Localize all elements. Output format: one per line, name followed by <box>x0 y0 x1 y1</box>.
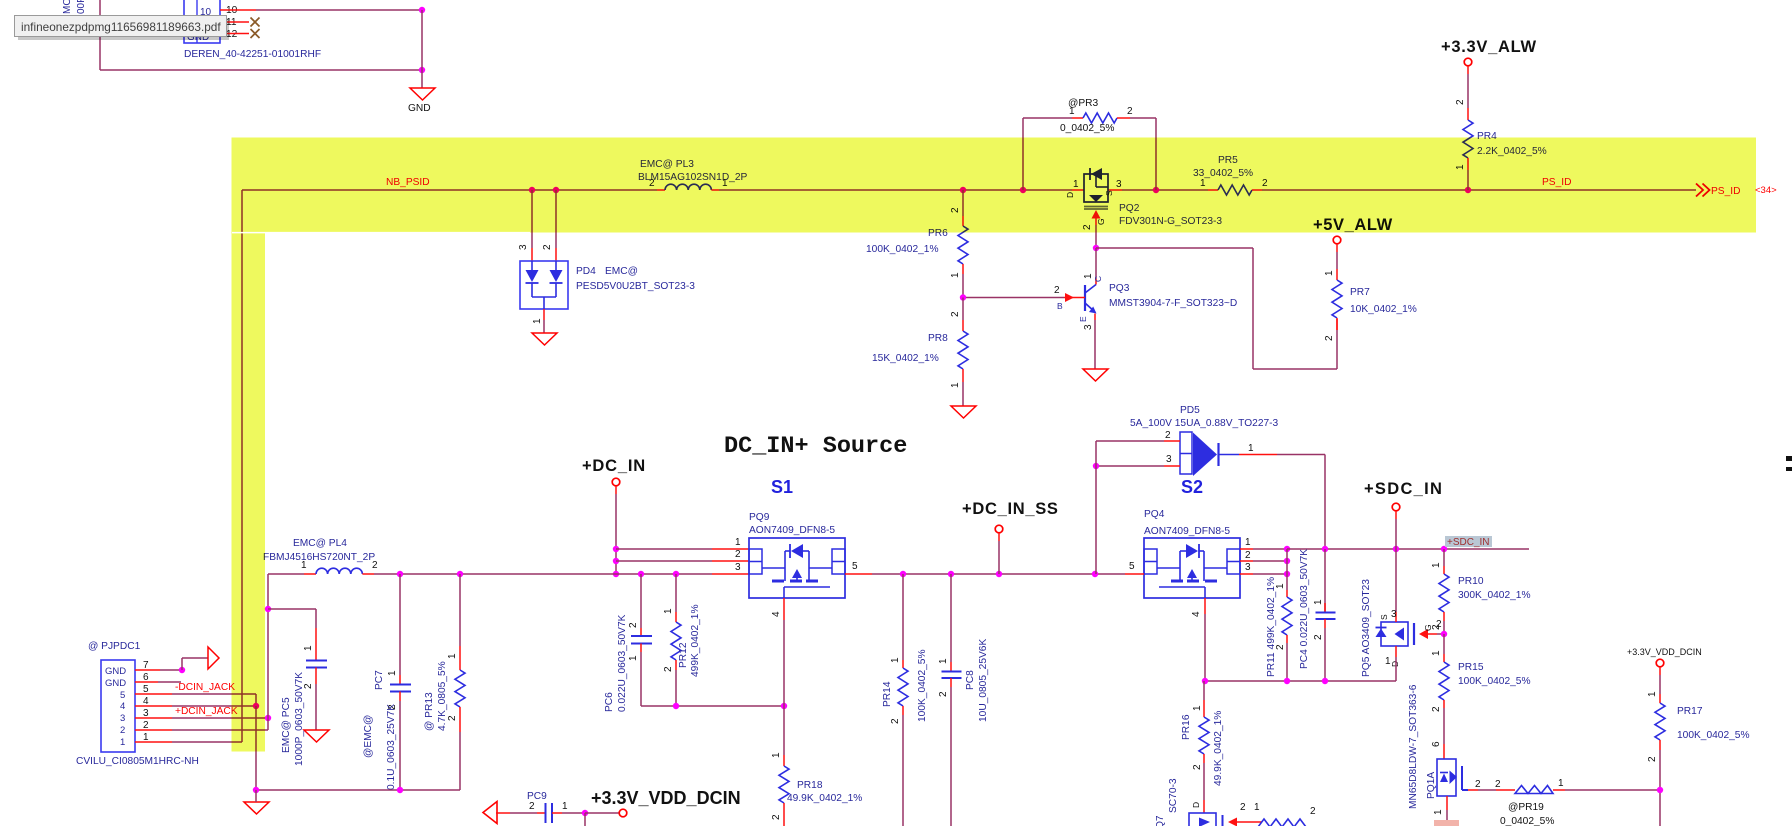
svg-text:PD4: PD4 <box>576 266 596 277</box>
svg-text:2: 2 <box>120 725 125 736</box>
pin stub 1 <box>1446 796 1448 810</box>
wire <box>962 298 964 321</box>
svg-text:PR8: PR8 <box>928 333 948 344</box>
gate arrow <box>1419 629 1428 639</box>
wire <box>783 620 785 706</box>
inductor PL3 coil <box>665 184 711 190</box>
svg-text:2: 2 <box>1240 802 1246 813</box>
wire <box>543 320 545 333</box>
net +DCIN_JACK riser <box>267 574 269 730</box>
junction <box>253 787 259 793</box>
wire <box>1395 657 1397 681</box>
transistor PQ5 internals <box>1376 629 1387 638</box>
svg-text:3: 3 <box>518 244 529 250</box>
wire <box>172 693 256 695</box>
svg-text:GND: GND <box>105 666 126 677</box>
pin stub <box>1252 189 1262 191</box>
pin stub <box>1239 454 1277 456</box>
wire <box>998 541 1000 574</box>
pin stub <box>712 548 749 550</box>
wire <box>1095 441 1097 574</box>
svg-text:3: 3 <box>1166 454 1172 465</box>
transistor Q7 internals <box>1199 818 1210 826</box>
highlighted net sliver <box>1434 820 1459 826</box>
pin stub <box>1336 319 1338 330</box>
wire <box>255 790 257 802</box>
svg-text:0_0402_5%: 0_0402_5% <box>1060 123 1114 134</box>
svg-text:2: 2 <box>447 715 458 721</box>
transistor Q7 gate bar <box>1222 815 1224 826</box>
transistor PQ9 pin cells <box>749 549 762 574</box>
pin stub <box>712 560 749 562</box>
svg-text:300K_0402_1%: 300K_0402_1% <box>1458 590 1531 601</box>
pin 1 stub <box>135 741 172 743</box>
wire <box>1022 118 1024 190</box>
svg-text:3: 3 <box>1083 324 1094 330</box>
pin stub <box>950 678 952 687</box>
svg-text:1: 1 <box>950 272 961 278</box>
wire <box>615 494 617 574</box>
wire <box>783 706 785 755</box>
svg-text:PQ9: PQ9 <box>749 512 770 523</box>
power terminal <box>619 809 627 817</box>
wire <box>374 573 712 575</box>
svg-text:2: 2 <box>950 311 961 317</box>
svg-text:S2: S2 <box>1181 477 1203 497</box>
wire <box>1203 681 1205 700</box>
svg-text:1: 1 <box>532 318 543 324</box>
svg-text:GND: GND <box>408 103 431 114</box>
svg-text:PR12: PR12 <box>678 642 689 668</box>
svg-text:1: 1 <box>1313 599 1324 605</box>
wire <box>1096 440 1164 442</box>
svg-text:EMC@: EMC@ <box>605 266 638 277</box>
resistor PR8 <box>958 331 968 369</box>
resistor PR14 <box>898 668 908 706</box>
pin stub <box>1203 754 1205 763</box>
svg-text:AON7409_DFN8-5: AON7409_DFN8-5 <box>1144 526 1230 537</box>
pin stub 3 <box>1395 612 1397 622</box>
pin stub <box>531 248 533 261</box>
svg-text:PR10: PR10 <box>1458 576 1484 587</box>
svg-text:@PR19: @PR19 <box>1508 802 1544 813</box>
pin stub <box>962 216 964 226</box>
pin stub <box>1659 740 1661 750</box>
pin stub <box>304 573 316 575</box>
resistor PR11 <box>1282 597 1292 635</box>
junction <box>1153 187 1159 193</box>
power terminal +SDC_IN <box>1392 503 1400 511</box>
wire <box>1253 548 1287 550</box>
resistor PR7 <box>1332 280 1342 318</box>
junction <box>253 703 259 709</box>
pin stub <box>998 533 1000 541</box>
svg-text:2: 2 <box>1324 335 1335 341</box>
capacitor PC7 <box>390 684 411 686</box>
svg-text:+SDC_IN: +SDC_IN <box>1364 480 1443 498</box>
wire <box>1395 549 1397 612</box>
junction <box>1092 571 1098 577</box>
wire <box>1253 560 1287 562</box>
capacitor PC8 branch <box>950 574 952 662</box>
svg-text:0.1U_0603_25V7K: 0.1U_0603_25V7K <box>386 704 397 790</box>
pin stub <box>783 803 785 826</box>
diode PD5 triangle <box>1193 433 1217 477</box>
wire <box>1130 117 1156 119</box>
pin stub <box>496 812 510 814</box>
wire <box>315 609 317 628</box>
wire <box>962 190 964 216</box>
wire <box>1095 248 1097 279</box>
svg-text:EMC@ PC5: EMC@ PC5 <box>281 697 292 753</box>
resistor PR3 <box>1083 113 1117 123</box>
pin stub <box>1072 117 1083 119</box>
svg-text:1: 1 <box>1433 809 1444 815</box>
resistor PR14 branch <box>902 574 904 660</box>
junction <box>613 546 619 552</box>
wire <box>1467 170 1469 190</box>
gate wire <box>1428 633 1437 635</box>
connector DEREN J1 body <box>184 0 220 43</box>
svg-text:FBMJ4516HS720NT_2P: FBMJ4516HS720NT_2P <box>263 552 375 563</box>
svg-text:1: 1 <box>562 801 568 812</box>
transistor PQ4 pin cells <box>1144 549 1157 574</box>
resistor PR5 <box>1218 185 1252 195</box>
pin stub 4 <box>783 598 785 620</box>
pin stub <box>1208 189 1218 191</box>
pin stub <box>1094 314 1096 321</box>
wire <box>1253 368 1337 370</box>
ground <box>951 406 976 418</box>
pin stub <box>1164 465 1180 467</box>
pin stub <box>1203 700 1205 717</box>
svg-text:5: 5 <box>1129 561 1135 572</box>
wire <box>616 560 712 562</box>
pin stub <box>615 486 617 494</box>
svg-text:2: 2 <box>1431 706 1442 712</box>
svg-text:3: 3 <box>735 562 741 573</box>
pin stub <box>1336 269 1338 280</box>
pin stub <box>1443 566 1445 574</box>
resistor PR18 <box>779 766 789 803</box>
wire rail <box>641 705 784 707</box>
svg-text:00F: 00F <box>76 0 87 14</box>
pin stub <box>1237 821 1262 823</box>
tooltip shadow <box>18 19 229 40</box>
svg-text:4: 4 <box>771 611 782 617</box>
wire <box>962 382 964 406</box>
wire <box>1446 810 1448 820</box>
wire <box>950 687 952 826</box>
svg-text:1: 1 <box>447 653 458 659</box>
pin stub <box>1443 700 1445 708</box>
svg-text:MC: MC <box>62 0 73 14</box>
svg-text:PR11 499K_0402_1%: PR11 499K_0402_1% <box>1266 577 1277 677</box>
wire <box>719 189 1072 191</box>
junction <box>613 571 619 577</box>
pin stub <box>1095 218 1097 225</box>
resistor PR15 <box>1439 662 1449 700</box>
svg-text:1: 1 <box>938 658 949 664</box>
net column <box>1286 549 1288 590</box>
wire <box>181 658 183 670</box>
wire <box>902 715 904 826</box>
base wire <box>963 297 1064 299</box>
svg-text:2: 2 <box>1165 430 1171 441</box>
pin stub <box>1286 590 1288 597</box>
svg-text:D: D <box>1390 661 1400 667</box>
wire <box>158 681 181 683</box>
svg-text:1: 1 <box>890 657 901 663</box>
wire <box>1443 621 1445 634</box>
svg-text:2: 2 <box>1313 634 1324 640</box>
resistor PR16 <box>1199 717 1209 754</box>
transistor PQ2 internals <box>1089 168 1091 180</box>
capacitor PC4 <box>1316 612 1336 614</box>
svg-text:MN65D8LDW-7_SOT363-6: MN65D8LDW-7_SOT363-6 <box>1408 684 1419 809</box>
junction <box>397 571 403 577</box>
pin stub <box>1467 108 1469 120</box>
pin stub <box>1336 318 1338 330</box>
transistor PQ5 body <box>1381 622 1408 646</box>
wire <box>562 812 585 814</box>
pin stub <box>552 812 562 814</box>
pin stub <box>640 628 642 636</box>
svg-text:1: 1 <box>301 560 307 571</box>
svg-text:4.7K_0805_5%: 4.7K_0805_5% <box>437 661 448 731</box>
capacitor PC6 <box>631 635 652 637</box>
transistor PQ1A gate lead <box>1461 766 1463 790</box>
pin stub 5 <box>845 573 872 575</box>
pin stub <box>315 668 317 685</box>
svg-text:S1: S1 <box>771 477 793 497</box>
svg-text:PR17: PR17 <box>1677 706 1703 717</box>
transistor PQ2 gate plates <box>1084 206 1108 208</box>
diode PD5 pin box <box>1180 432 1192 474</box>
pin stub <box>1324 619 1326 628</box>
svg-text:-DCIN_JACK: -DCIN_JACK <box>175 682 235 693</box>
wire <box>1565 789 1660 791</box>
wire <box>399 701 401 790</box>
transistor PQ1A internals <box>1440 774 1448 783</box>
wire <box>255 694 257 706</box>
pin stub <box>1443 654 1445 662</box>
wire <box>172 717 268 719</box>
svg-text:PESD5V0U2BT_SOT23-3: PESD5V0U2BT_SOT23-3 <box>576 281 695 292</box>
power terminal +DC_IN <box>612 478 620 486</box>
svg-text:1: 1 <box>1069 106 1075 117</box>
resistor PR12 <box>671 622 681 660</box>
no-connect arrow <box>208 647 219 669</box>
wire <box>640 574 642 628</box>
svg-text:+3.3V_ALW: +3.3V_ALW <box>1441 38 1537 56</box>
svg-text:PC7: PC7 <box>374 670 385 690</box>
pin stubs 1 2 3 <box>1240 548 1253 550</box>
junction <box>1284 546 1290 552</box>
junction <box>1465 187 1471 193</box>
svg-text:AON7409_DFN8-5: AON7409_DFN8-5 <box>749 525 835 536</box>
tooltip <box>15 16 227 37</box>
pin stub <box>1164 440 1180 442</box>
svg-text:2: 2 <box>1127 106 1133 117</box>
junction <box>397 787 403 793</box>
svg-text:1: 1 <box>1647 691 1658 697</box>
wire <box>1443 549 1445 566</box>
pin stub <box>1467 66 1469 74</box>
gate arrow <box>1228 818 1237 826</box>
svg-text:2: 2 <box>1455 99 1466 105</box>
svg-text:2: 2 <box>1475 779 1481 790</box>
svg-text:CVILU_CI0805M1HRC-NH: CVILU_CI0805M1HRC-NH <box>76 756 199 767</box>
junction <box>582 810 588 816</box>
capacitor PC8 <box>942 671 962 673</box>
pin stub <box>1443 612 1445 621</box>
pin stub <box>399 692 401 702</box>
pin stub <box>459 707 461 732</box>
svg-text:3: 3 <box>1391 609 1397 620</box>
svg-text:2: 2 <box>1245 550 1251 561</box>
pin stub <box>962 369 964 382</box>
svg-text:PQ4: PQ4 <box>1144 509 1165 520</box>
svg-text:EMC@ PL4: EMC@ PL4 <box>293 538 347 549</box>
svg-text:499K_0402_1%: 499K_0402_1% <box>690 604 701 677</box>
pin stub <box>543 309 545 320</box>
junction <box>1322 546 1328 552</box>
pin stub <box>783 755 785 766</box>
pin stub <box>399 675 401 684</box>
wire <box>584 813 586 826</box>
junction <box>960 294 966 300</box>
pin stub <box>362 573 374 575</box>
transistor PQ1A body <box>1437 759 1456 796</box>
svg-text:PR16: PR16 <box>1181 714 1192 740</box>
transistor PQ5 gate bar <box>1413 623 1415 645</box>
junction <box>553 187 559 193</box>
junction <box>638 571 644 577</box>
wire <box>1324 549 1326 612</box>
power terminal +DC_IN_SS <box>995 525 1003 533</box>
pin 6 stub <box>135 681 158 683</box>
wire <box>1324 628 1326 681</box>
net NB_PSID wire <box>242 189 657 191</box>
svg-text:@ PR13: @ PR13 <box>424 692 435 731</box>
svg-text:2: 2 <box>1192 764 1203 770</box>
pin stub <box>675 612 677 622</box>
wire <box>1336 252 1338 269</box>
pin stub <box>711 189 719 191</box>
pin stub <box>1395 511 1397 519</box>
svg-text:6: 6 <box>1431 741 1442 747</box>
junction <box>265 606 271 612</box>
svg-text:+SDC_IN: +SDC_IN <box>1447 537 1490 548</box>
svg-text:1: 1 <box>1245 537 1251 548</box>
svg-text:PR18: PR18 <box>797 780 823 791</box>
svg-text:5: 5 <box>852 561 858 572</box>
svg-text:+DC_IN_SS: +DC_IN_SS <box>962 500 1059 518</box>
partial text at edge <box>1786 456 1792 461</box>
off-page arrow <box>483 802 497 824</box>
wire <box>510 812 537 814</box>
pin stub <box>675 660 677 670</box>
svg-text:2: 2 <box>1495 779 1501 790</box>
resistor PR10 <box>1439 574 1449 612</box>
wire <box>1122 189 1208 191</box>
wire <box>640 652 642 706</box>
wire <box>100 69 422 71</box>
pin stub <box>459 646 461 670</box>
svg-text:5: 5 <box>120 690 125 701</box>
wire <box>616 548 712 550</box>
inductor PL4 coil <box>316 568 362 574</box>
svg-text:1: 1 <box>1254 802 1260 813</box>
diode PD5 cathode bar <box>1217 443 1219 466</box>
svg-text:2: 2 <box>542 244 553 250</box>
junction <box>1202 678 1208 684</box>
svg-text:1: 1 <box>735 537 741 548</box>
svg-text:GND: GND <box>105 678 126 689</box>
wire <box>172 741 242 743</box>
svg-text:15K_0402_1%: 15K_0402_1% <box>872 353 939 364</box>
svg-text:B: B <box>1057 301 1063 311</box>
svg-text:MMST3904-7-F_SOT323~D: MMST3904-7-F_SOT323~D <box>1109 298 1237 309</box>
pin stub <box>1203 800 1205 813</box>
wire <box>1252 248 1254 369</box>
svg-text:1: 1 <box>1431 562 1442 568</box>
wire <box>1478 789 1496 791</box>
svg-text:1: 1 <box>1324 270 1335 276</box>
pin stub <box>1095 279 1097 285</box>
svg-text:S: S <box>1379 614 1389 620</box>
junction <box>529 187 535 193</box>
wire <box>1443 634 1445 654</box>
pin stub <box>1496 789 1515 791</box>
pin stub <box>657 189 665 191</box>
wire <box>1095 225 1097 248</box>
wire <box>268 573 304 575</box>
wire <box>1096 247 1253 249</box>
svg-text:0_0402_5%: 0_0402_5% <box>1500 816 1554 826</box>
junction <box>419 67 425 73</box>
svg-text:PC4 0.022U_0603_50V7K: PC4 0.022U_0603_50V7K <box>1299 549 1310 669</box>
svg-text:PR15: PR15 <box>1458 662 1484 673</box>
svg-text:1: 1 <box>771 752 782 758</box>
junction <box>613 558 619 564</box>
junction <box>900 571 906 577</box>
transistor PQ4 internals <box>1157 567 1180 569</box>
pin stub <box>1117 117 1130 119</box>
pin stub <box>1659 694 1661 703</box>
junction <box>1657 787 1663 793</box>
svg-text:2: 2 <box>1647 756 1658 762</box>
junction <box>960 187 966 193</box>
wire <box>1659 675 1661 694</box>
wire <box>1336 330 1338 369</box>
wire <box>1467 74 1469 108</box>
pin stub <box>902 660 904 668</box>
svg-text:PQ3: PQ3 <box>1109 283 1130 294</box>
junction <box>948 571 954 577</box>
svg-text:C: C <box>1093 276 1103 282</box>
transistor PQ3 <box>1084 285 1086 311</box>
svg-text:PR14: PR14 <box>882 681 893 707</box>
wire <box>675 574 677 612</box>
wire <box>1324 455 1326 550</box>
pin stub <box>640 644 642 653</box>
junction <box>1322 678 1328 684</box>
connector PJPDC1 body <box>101 660 135 752</box>
wire rail <box>1205 680 1396 682</box>
wire <box>1155 118 1157 190</box>
